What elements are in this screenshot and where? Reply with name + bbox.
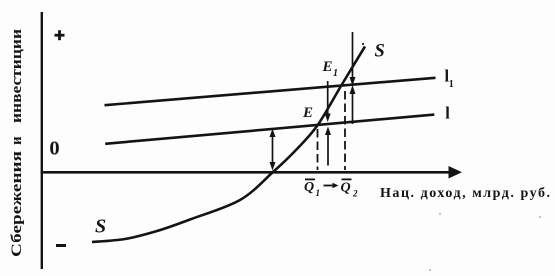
svg-text:E: E bbox=[322, 59, 333, 75]
svg-text:S: S bbox=[375, 42, 385, 62]
svg-text:Q: Q bbox=[341, 181, 351, 196]
scan speck bbox=[539, 216, 541, 218]
savings curve S bbox=[92, 46, 365, 242]
svg-text:1: 1 bbox=[449, 79, 454, 90]
scan speck bbox=[439, 213, 441, 215]
minus sign bbox=[56, 244, 66, 247]
plus sign bbox=[55, 34, 65, 37]
svg-text:E: E bbox=[302, 105, 313, 121]
svg-text:1: 1 bbox=[333, 68, 338, 79]
down arrow from above I1 to line I near E bbox=[327, 81, 329, 119]
scan speck bbox=[429, 269, 431, 271]
double-headed arrow between line I and x-axis bbox=[272, 132, 274, 167]
y-axis bbox=[41, 12, 43, 269]
dashed drop line from E1 to x-axis (Q2) bbox=[344, 91, 346, 170]
svg-text:1: 1 bbox=[316, 188, 321, 198]
pen mark dot above S tip bbox=[362, 43, 364, 45]
dashed drop line from E to x-axis (Q1) bbox=[317, 129, 319, 170]
svg-text:и: и bbox=[9, 136, 25, 145]
svg-text:2: 2 bbox=[352, 189, 358, 199]
x-axis arrowhead bbox=[449, 166, 463, 179]
svg-text:Q: Q bbox=[304, 180, 314, 195]
arrow between Q1 and Q2 bbox=[324, 185, 335, 187]
svg-text:S: S bbox=[95, 216, 106, 238]
svg-text:0: 0 bbox=[49, 138, 59, 160]
svg-text:Сбережения: Сбережения bbox=[9, 151, 25, 257]
svg-text:Нац. доход, млрд. руб.: Нац. доход, млрд. руб. bbox=[380, 186, 550, 201]
up arrow from line I to line I1 bbox=[352, 92, 354, 124]
investment line I1 (upper) bbox=[105, 78, 436, 105]
investment line I (lower) bbox=[105, 115, 434, 144]
vertical guide line above with down arrow to I1 bbox=[352, 32, 354, 78]
svg-text:l: l bbox=[445, 103, 450, 122]
x-axis bbox=[41, 171, 452, 174]
svg-text:инвестиции: инвестиции bbox=[9, 29, 25, 123]
up arrow below line I at E toward line I bbox=[327, 132, 329, 166]
